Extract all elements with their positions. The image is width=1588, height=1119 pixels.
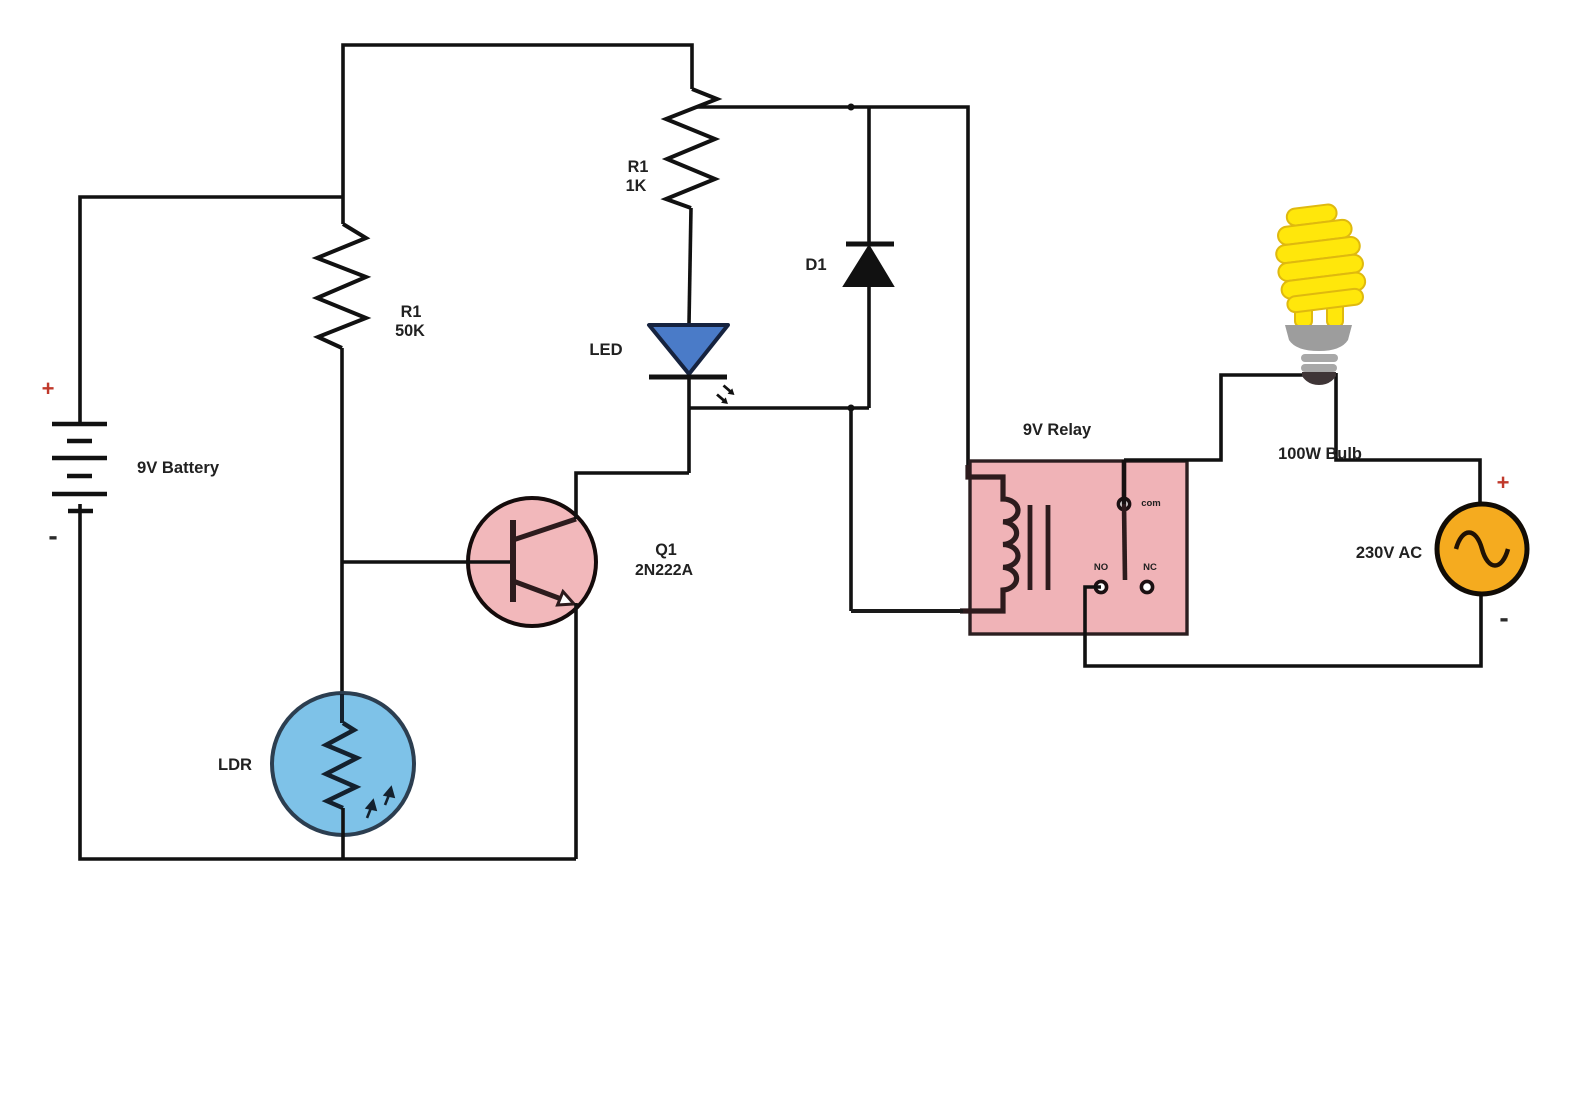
LED: [649, 325, 728, 377]
relay 9V box: [970, 461, 1187, 634]
svg-text:NO: NO: [1094, 562, 1108, 573]
svg-text:1K: 1K: [626, 177, 647, 195]
svg-text:50K: 50K: [395, 322, 425, 340]
relay core bars: [1030, 505, 1048, 590]
svg-text:D1: D1: [805, 255, 826, 274]
wire R1 1K to LED anode: [689, 208, 691, 324]
wire LED cathode down and right to D1 bottom: [687, 377, 691, 473]
svg-text:LED: LED: [589, 340, 622, 359]
svg-text:-: -: [1499, 602, 1508, 633]
resistor R1 1K: [666, 89, 717, 208]
relay com contact: [1118, 460, 1129, 580]
wire top rail battery node to R1 1K top: [343, 45, 692, 224]
CFL bulb 100W: [1271, 201, 1368, 385]
wire junction to relay coil return: [849, 408, 853, 611]
svg-text:LDR: LDR: [218, 755, 252, 774]
LED emission arrows: [715, 383, 737, 407]
wire base: [342, 560, 510, 564]
wire R1 bottom to base node and LDR: [340, 348, 344, 695]
svg-text:R1: R1: [401, 303, 422, 321]
svg-text:9V Relay: 9V Relay: [1023, 421, 1092, 439]
svg-text:2N222A: 2N222A: [635, 562, 693, 579]
wire com to bulb: [1124, 375, 1307, 460]
AC source 230V: [1437, 504, 1527, 594]
svg-text:+: +: [42, 376, 55, 401]
wire NO to AC bottom: [1085, 587, 1481, 666]
wire bulb to AC source: [1336, 373, 1480, 504]
svg-text:R1: R1: [628, 158, 649, 176]
svg-text:NC: NC: [1143, 562, 1157, 573]
wire emitter to bottom rail: [574, 603, 578, 859]
resistor R1 50K: [317, 224, 366, 348]
svg-text:9V Battery: 9V Battery: [137, 458, 220, 477]
relay NC contact: [1141, 581, 1152, 592]
svg-text:230V AC: 230V AC: [1356, 544, 1422, 562]
transistor Q1 2N222A: [468, 498, 596, 626]
wire battery+ to R1 50K top node: [80, 197, 343, 423]
LDR light arrows: [367, 788, 393, 818]
svg-text:-: -: [48, 520, 57, 551]
relay coil: [960, 465, 1018, 611]
junction dot bottom: [848, 405, 855, 412]
svg-text:Q1: Q1: [655, 541, 677, 559]
svg-text:com: com: [1141, 498, 1161, 509]
relay NO contact: [1095, 581, 1106, 592]
wire battery- to bottom rail: [80, 511, 576, 859]
junction dot top: [848, 104, 855, 111]
wire collector: [576, 473, 689, 519]
svg-text:+: +: [1497, 470, 1510, 495]
wire node top rail to relay coil: [697, 107, 968, 477]
svg-text:100W Bulb: 100W Bulb: [1278, 445, 1362, 463]
diode D1: [844, 107, 894, 408]
wire coil return to junction column: [851, 609, 963, 613]
LDR: [272, 693, 414, 859]
battery 9V: [52, 424, 107, 511]
